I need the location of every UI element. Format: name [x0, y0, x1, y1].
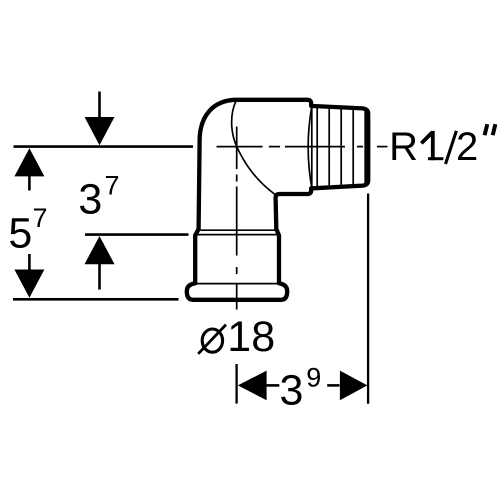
- horizontal centerline: [217, 146, 388, 148]
- dim 39 right arrowhead: [340, 371, 368, 401]
- thread crest line 5: [364, 110, 366, 185]
- extension line top (pipe axis level): [14, 145, 194, 148]
- elbow fitting body outline: [187, 100, 368, 300]
- dim 39 left line: [267, 384, 280, 387]
- dim 57 lower arrow stem: [28, 254, 31, 271]
- dim 37 bottom arrow stem: [98, 264, 101, 290]
- thread crest line 2: [328, 107, 330, 188]
- diameter symbol slash: [198, 325, 226, 354]
- dim 37 top arrowhead: [85, 117, 115, 145]
- ogive intersection curve: [232, 101, 275, 195]
- label slash (thread designation): [446, 131, 457, 164]
- dim 57 upper arrow stem: [28, 176, 31, 191]
- extension line middle (socket top level): [85, 233, 189, 236]
- dim 39 left arrowhead: [238, 371, 267, 401]
- dim 37 bottom arrowhead: [85, 236, 115, 264]
- svg-text:3: 3: [78, 176, 102, 224]
- svg-text:7: 7: [33, 203, 48, 233]
- svg-text:3: 3: [280, 367, 304, 415]
- vertical centerline: [236, 127, 238, 310]
- svg-text:7: 7: [105, 171, 120, 201]
- thread runout arc: [308, 107, 312, 188]
- label 1 (thread designation): [420, 131, 443, 160]
- dim 37 top arrow stem: [98, 92, 101, 119]
- thread crest line 1: [316, 106, 318, 188]
- extension line bottom (fitting end level): [13, 298, 179, 301]
- dim 39 left extension line: [235, 364, 237, 404]
- bead top thin line: [197, 283, 278, 285]
- thread crest line 4: [352, 108, 354, 186]
- socket cone upper thin line: [201, 229, 276, 231]
- dim 39 right line: [327, 384, 339, 387]
- svg-text:18: 18: [227, 313, 275, 361]
- thread crest line 3: [340, 108, 342, 187]
- socket cone lower thin line: [197, 234, 279, 236]
- thread runout straight line: [311, 107, 313, 188]
- svg-text:2: 2: [456, 125, 478, 169]
- svg-text:5: 5: [8, 209, 32, 257]
- dim 39 right extension line: [367, 194, 369, 404]
- inch tick 1: [485, 124, 488, 135]
- dim 57 lower arrowhead: [14, 270, 44, 298]
- svg-text:9: 9: [306, 363, 321, 393]
- diameter symbol circle: [202, 329, 222, 352]
- dim 57 upper arrowhead: [14, 148, 44, 176]
- inch tick 2: [493, 124, 496, 135]
- svg-text:R: R: [389, 125, 418, 169]
